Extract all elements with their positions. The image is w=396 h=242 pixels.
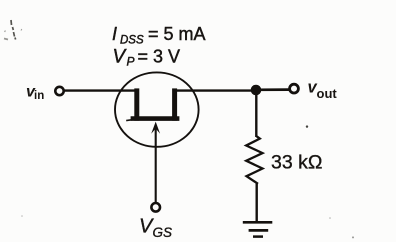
wire resistor to ground [256,184,258,223]
gate arrowhead [151,122,160,134]
smudge mark top-left [4,20,22,40]
resistor R1 zigzag [246,136,262,184]
ground [243,222,272,236]
VGS terminal [151,203,160,212]
svg-text:GS: GS [153,225,173,240]
JFET drain vertical bar [134,88,139,120]
JFET U1 circle [115,72,199,146]
JFET channel bar [131,116,180,121]
label vin [26,84,44,103]
JFET source vertical bar [172,88,177,120]
node junction dot [251,85,262,96]
output terminal [290,84,299,93]
svg-text:33 kΩ: 33 kΩ [271,152,322,174]
gate wire to VGS [155,125,157,203]
svg-text:P: P [127,55,135,69]
wire JFET source to junction [177,89,253,91]
input terminal [55,87,63,95]
label VP = 3 V [113,47,181,69]
scan speckles [21,125,354,238]
label VGS [139,216,172,241]
channel bar left pen tail [126,119,131,122]
wire input to JFET drain [64,89,135,91]
svg-text:out: out [317,86,338,101]
svg-text:in: in [34,90,44,102]
wire junction to resistor [255,94,257,137]
svg-text:= 5 mA: = 5 mA [148,24,206,44]
svg-text:I: I [112,24,117,44]
label IDSS = 5 mA [112,24,206,47]
svg-text:DSS: DSS [120,35,144,47]
label vout [308,79,338,102]
svg-text:= 3 V: = 3 V [138,47,181,67]
wire junction to output terminal [256,88,289,91]
